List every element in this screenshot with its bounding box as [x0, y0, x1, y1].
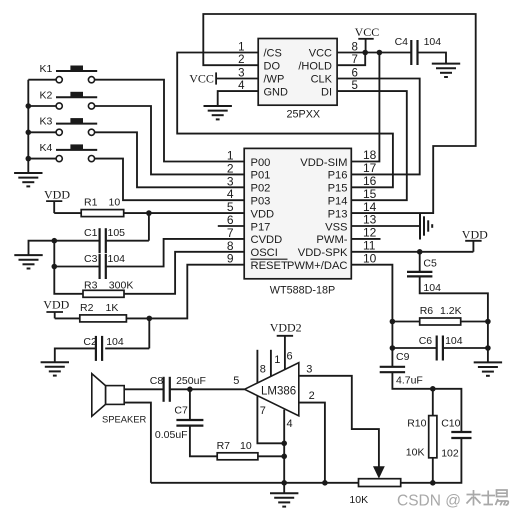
resistor R6 1.2K [420, 305, 462, 325]
ground C1/C3 rail [14, 255, 42, 268]
wire speaker top terminal to C8 [124, 388, 164, 390]
svg-text:R7: R7 [217, 440, 231, 452]
U2 right pin names [298, 48, 332, 99]
svg-text:1: 1 [274, 354, 280, 366]
svg-text:C4: C4 [395, 36, 409, 48]
svg-text:10: 10 [109, 197, 121, 209]
IC U1 WT588D-18P body [244, 148, 351, 296]
pushbutton K3 [40, 116, 98, 136]
speaker LS1 [92, 374, 147, 425]
pushbutton K2 [40, 89, 98, 109]
wire R1 to U1 pin5 VDD [124, 212, 245, 214]
wire R3 to U1 pin8 OSCI [124, 252, 244, 294]
wire C7 to R7 [190, 426, 217, 457]
svg-text:VDD-SPK: VDD-SPK [298, 247, 348, 259]
svg-text:0.05uF: 0.05uF [155, 429, 188, 441]
wire rail C1-C3 [53, 241, 55, 267]
wire C6 left lead [392, 347, 436, 349]
node C8/C7 junction [187, 387, 193, 393]
capacitor C10 102 [441, 418, 471, 460]
U2 right pin numbers 8-5 [352, 42, 358, 93]
svg-text:4: 4 [287, 418, 293, 430]
resistor R2 1K [80, 302, 127, 322]
wire R2 to U1 pin9 RESET [126, 265, 244, 319]
node C6 right [485, 345, 491, 351]
svg-text:R1: R1 [84, 197, 98, 209]
node pin2/rail [322, 480, 328, 486]
wire K1 to U1 pin 1 (P00) [95, 80, 245, 162]
resistor R3 300K [83, 279, 133, 297]
resistor R1 10 [81, 197, 124, 217]
node R6 left [390, 319, 396, 325]
svg-text:104: 104 [423, 282, 441, 294]
wire R7 to pin4 net [258, 455, 284, 457]
wire speaker bottom terminal to rail [124, 403, 151, 483]
potentiometer RP1 10K [349, 479, 400, 506]
node R1/C1 junction [146, 210, 152, 216]
wire /CS pin1 to U1 pin16 P15 [177, 53, 393, 188]
svg-text:10: 10 [363, 251, 377, 265]
wire C1 left to rail [54, 240, 99, 242]
svg-text:8: 8 [260, 363, 266, 375]
svg-text:R2: R2 [80, 302, 94, 314]
node VCC junction [362, 50, 368, 56]
pushbutton K4 [40, 142, 98, 162]
svg-text:RESET: RESET [251, 260, 288, 272]
U3 pin 1 stub [271, 350, 281, 377]
node key rail junctions [26, 103, 32, 161]
svg-text:2: 2 [309, 390, 315, 402]
wire C5 stem top [419, 252, 421, 272]
wire GND pin4 to ground [218, 91, 259, 106]
svg-text:P17: P17 [251, 221, 271, 233]
svg-text:VDD: VDD [44, 188, 70, 202]
svg-text:4.7uF: 4.7uF [396, 375, 423, 387]
U1 right pin names [287, 157, 348, 272]
capacitor C6 104 [419, 335, 463, 361]
wire pot to R10 bottom [401, 482, 433, 484]
capacitor C9 4.7uF [380, 351, 423, 386]
wire R10 bottom lead [432, 458, 434, 483]
wire C8 to op-amp pin5 [170, 388, 245, 390]
svg-text:C7: C7 [174, 405, 188, 417]
svg-text:5: 5 [233, 375, 239, 387]
node C6 left [390, 345, 396, 351]
wire C3 to U1 pin7 CVDD [106, 239, 244, 267]
ground 25PXX [204, 106, 232, 119]
svg-text:17: 17 [363, 161, 377, 175]
svg-text:C2: C2 [83, 336, 97, 348]
svg-text:104: 104 [108, 253, 126, 265]
wire C2 right [105, 347, 149, 349]
wire C10 branch [433, 389, 462, 432]
wire VCC to U1 pin18 VDD-SIM [351, 53, 379, 162]
wire C3 left [54, 266, 99, 268]
wire riser R6-C6 left [391, 322, 393, 349]
U1 left pin names [251, 157, 288, 272]
ground keys [14, 173, 42, 186]
node R7 right [281, 454, 287, 460]
capacitor C7 0.05uF [155, 405, 204, 441]
wire CLK pin6 to U1 pin17 P16 [337, 79, 420, 175]
svg-text:250uF: 250uF [176, 375, 206, 387]
wire DO pin2 loop to U1 pin14 P13 [203, 14, 475, 213]
svg-text:18: 18 [363, 148, 377, 162]
node rail/C3 [52, 264, 58, 270]
wire C10 bottom to rail [433, 438, 462, 483]
wire U1 pin6 P17 stub [218, 225, 244, 227]
ground C2 [41, 362, 69, 375]
svg-text:7: 7 [227, 226, 234, 240]
power VDD (pin11) [462, 228, 488, 252]
svg-text:C10: C10 [441, 418, 460, 430]
svg-text:SPEAKER: SPEAKER [102, 413, 147, 424]
wire C4 to ground [418, 53, 447, 64]
svg-text:16: 16 [363, 174, 377, 188]
power VDD (R1) [44, 188, 70, 214]
U1 left pin numbers 1-9 [227, 149, 234, 266]
wire K4 to U1 pin 4 (P03) [95, 159, 245, 201]
svg-text:5: 5 [227, 200, 234, 214]
wire VDD to R1 [54, 212, 81, 214]
svg-text:10K: 10K [406, 447, 425, 459]
svg-text:C9: C9 [396, 351, 410, 363]
svg-text:DI: DI [321, 86, 332, 98]
wire rail C3-R3 [54, 267, 83, 294]
svg-text:VDD: VDD [43, 298, 69, 312]
wire /HOLD pin7 riser [337, 53, 365, 66]
capacitor C5 104 [407, 257, 441, 294]
watermark CSDN [397, 490, 508, 510]
svg-text:VDD: VDD [251, 208, 275, 220]
svg-text:105: 105 [108, 227, 126, 239]
svg-text:C5: C5 [423, 257, 437, 269]
power VCC (top) [355, 25, 380, 53]
power VDD2 [270, 321, 302, 336]
U3 pin 8 stub [257, 350, 266, 383]
U3 pin 2 wire [299, 390, 325, 483]
wire VDD to R2 [55, 317, 80, 319]
svg-text:K3: K3 [40, 116, 53, 128]
ground C6 [474, 362, 502, 375]
svg-text:VCC: VCC [189, 71, 214, 85]
svg-text:P03: P03 [251, 196, 271, 208]
node rail/C1 [52, 238, 58, 244]
svg-text:8: 8 [227, 239, 234, 253]
svg-text:/HOLD: /HOLD [298, 60, 332, 72]
wire K2 to U1 pin 2 (P01) [95, 106, 245, 174]
capacitor C4 104 [395, 36, 442, 65]
svg-text:6: 6 [227, 213, 234, 227]
wire C6 left down to C9 [391, 348, 393, 367]
svg-text:K2: K2 [40, 89, 53, 101]
ground LM386 [270, 483, 298, 507]
arrow potentiometer wiper [373, 466, 385, 478]
svg-text:PWM+/DAC: PWM+/DAC [287, 260, 348, 272]
svg-text:P01: P01 [251, 170, 271, 182]
svg-text:13: 13 [363, 213, 377, 227]
IC U2 25PXX body [258, 39, 337, 121]
svg-text:3: 3 [306, 363, 312, 375]
svg-text:9: 9 [227, 252, 234, 266]
svg-text:1K: 1K [106, 302, 119, 314]
svg-text:CVDD: CVDD [251, 234, 283, 246]
svg-text:C1: C1 [84, 227, 98, 239]
wire U1 pin10 PWM+/DAC riser [351, 265, 392, 322]
U3 pin 4 wire [284, 410, 292, 483]
wire rail to ground arm [29, 241, 55, 255]
wire key common rail [27, 80, 29, 173]
resistor R7 10 [217, 440, 258, 460]
wire pin8 VCC row [337, 52, 411, 54]
svg-text:104: 104 [106, 336, 124, 348]
svg-text:DO: DO [264, 60, 281, 72]
svg-text:/WP: /WP [264, 74, 285, 86]
wire bottom rail [151, 482, 359, 484]
wire R6 right lead [461, 321, 488, 323]
node pin11/C5 [417, 249, 423, 255]
svg-text:C3: C3 [84, 253, 98, 265]
svg-text:WT588D-18P: WT588D-18P [270, 284, 335, 296]
U2 left pin numbers 1-4 [238, 42, 245, 93]
svg-text:12: 12 [363, 226, 377, 240]
capacitor C3 104 [84, 253, 125, 279]
U1 right pin numbers 18-10 [363, 148, 377, 265]
node R2/C2 junction [147, 316, 153, 322]
svg-text:4: 4 [227, 187, 234, 201]
svg-text:PWM-: PWM- [316, 234, 347, 246]
wire U1 pin13 VSS [351, 225, 419, 227]
svg-text:P14: P14 [328, 196, 348, 208]
svg-text:R6: R6 [420, 305, 434, 317]
wire K2 left terminal to rail [28, 105, 56, 107]
wire U1 pin12 PWM- stub [351, 238, 380, 240]
svg-text:P00: P00 [251, 157, 271, 169]
node R10 bottom [430, 480, 436, 486]
pushbutton K1 [40, 63, 98, 83]
svg-text:OSCI: OSCI [251, 247, 278, 259]
node R10 top [430, 386, 436, 392]
wire C5 to R6 right [420, 276, 488, 321]
svg-text:25PXX: 25PXX [287, 109, 321, 121]
capacitor C8 250uF [150, 375, 206, 402]
wire C1 right [106, 240, 149, 242]
U3 pin 7 wire [257, 396, 284, 444]
capacitor C1 105 [84, 227, 125, 253]
svg-text:P02: P02 [251, 183, 271, 195]
svg-text:C8: C8 [150, 375, 164, 387]
svg-text:CSDN @: CSDN @ [397, 493, 461, 510]
wire C9 to R10/C10 top [392, 372, 432, 389]
svg-text:14: 14 [363, 200, 377, 214]
wire R6 left lead [392, 321, 419, 323]
svg-text:VDD-SIM: VDD-SIM [300, 157, 347, 169]
svg-text:P16: P16 [328, 170, 348, 182]
wire R10 top lead [432, 389, 434, 416]
wire junction down to C2 [148, 318, 150, 348]
svg-text:K1: K1 [40, 63, 53, 75]
wire C7 stem [189, 389, 191, 420]
wire C2 left to ground [55, 348, 96, 362]
svg-text:11: 11 [363, 239, 376, 253]
svg-text:LM386: LM386 [261, 385, 296, 397]
wire C6 right lead [443, 347, 488, 349]
svg-text:R3: R3 [84, 279, 98, 291]
U2 left pin names [264, 48, 289, 99]
capacitor C2 104 [83, 336, 123, 361]
U3 pin 6 / VDD2 [285, 336, 293, 370]
wire DI pin5 to U1 pin15 P14 [337, 91, 407, 200]
node R6 right [485, 319, 491, 325]
svg-text:6: 6 [287, 351, 293, 363]
wire R6-C6 right down [487, 322, 489, 363]
ground VSS (sideways) [420, 213, 432, 240]
svg-text:VDD: VDD [462, 228, 488, 242]
U3 pin 3 output wire [299, 363, 379, 466]
wire K3 to U1 pin 3 (P02) [95, 132, 245, 187]
svg-text:104: 104 [445, 335, 463, 347]
wire VCC to /WP pin3 [216, 78, 258, 80]
wire K3 left terminal to rail [28, 131, 56, 133]
svg-text:15: 15 [363, 187, 377, 201]
svg-text:2: 2 [227, 161, 234, 175]
svg-text:102: 102 [441, 448, 459, 460]
svg-text:7: 7 [260, 405, 266, 417]
wire junction down to C1 [148, 213, 150, 241]
wire K4 left terminal to rail [28, 158, 56, 160]
wire /WP VCC tick [189, 71, 216, 85]
ground C4 [432, 64, 460, 77]
svg-text:1.2K: 1.2K [440, 305, 462, 317]
node pin18 tap [377, 50, 383, 56]
power VDD (R2) [43, 298, 69, 319]
U3 pin number 5 [233, 375, 239, 387]
wire K1 left terminal to rail [28, 79, 56, 81]
svg-text:300K: 300K [109, 279, 134, 291]
svg-text:P13: P13 [328, 208, 348, 220]
svg-text:VCC: VCC [309, 48, 332, 60]
svg-text:P15: P15 [328, 183, 348, 195]
svg-text:K4: K4 [40, 142, 53, 154]
svg-text:VCC: VCC [355, 25, 380, 39]
wire U1 pin11 VDD-SPK [351, 251, 473, 253]
svg-text:10K: 10K [349, 494, 368, 506]
node pin4/ground rail [281, 480, 287, 486]
node pin7/pin4 [281, 441, 287, 447]
svg-text:1: 1 [227, 149, 234, 163]
op-amp U3 LM386 [245, 363, 299, 416]
svg-text:10: 10 [240, 440, 252, 452]
resistor R10 10K [406, 416, 437, 459]
svg-text:C6: C6 [419, 335, 433, 347]
svg-text:VDD2: VDD2 [270, 321, 302, 335]
svg-text:VSS: VSS [325, 221, 347, 233]
svg-text:/CS: /CS [264, 48, 282, 60]
svg-text:CLK: CLK [311, 74, 333, 86]
svg-text:3: 3 [227, 174, 234, 188]
svg-text:R10: R10 [407, 418, 426, 430]
svg-text:GND: GND [264, 86, 289, 98]
svg-text:104: 104 [424, 36, 442, 48]
